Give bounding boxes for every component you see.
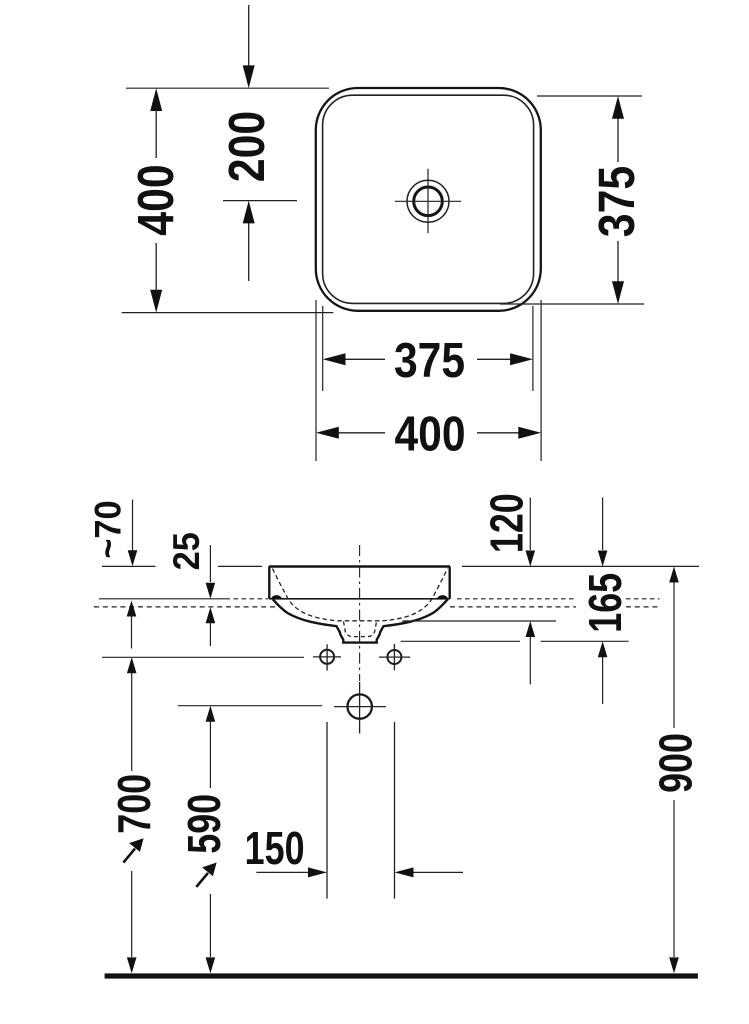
dim ~70: upper arrow (132, 500, 134, 553)
vertical centre line (dash-dot) (359, 545, 361, 681)
basin inner rim (top view) (323, 95, 534, 303)
fixing hole right (387, 650, 401, 664)
drain crosshair (395, 169, 461, 234)
svg-text:375: 375 (394, 332, 465, 387)
svg-text:700: 700 (109, 774, 160, 834)
basin inner bowl (hidden, dashed) (273, 569, 448, 621)
dim 700: lower arrow (131, 871, 133, 957)
basin seam line (269, 598, 450, 600)
dim ~70: lower arrow (131, 615, 133, 649)
reference line at rim level (ticks and right extension) (102, 565, 699, 567)
console line A solid part (99, 598, 226, 600)
dim 900: lower arrow (673, 800, 675, 957)
dim 590: upper arrow (209, 721, 211, 788)
svg-text:~70: ~70 (87, 500, 128, 558)
console line A dashed parts (226, 598, 660, 600)
bottom dims: extension verticals (316, 300, 541, 461)
dim 400 left: extension line top (126, 87, 329, 89)
basin rim top line (269, 565, 450, 567)
svg-text:150: 150 (245, 823, 305, 874)
dim 200: tick line at centre (223, 200, 297, 202)
dim 375 right: dimension line and arrowheads (617, 106, 619, 296)
svg-text:200: 200 (217, 111, 274, 182)
dim 120: lower arrow (529, 637, 531, 685)
svg-text:120: 120 (481, 493, 532, 553)
floor line (105, 973, 698, 978)
dim 120: upper arrow (529, 498, 531, 551)
dim 375 right: extension line bottom (500, 303, 644, 305)
590 reference line / drain crosshairs (178, 705, 322, 707)
dim 200: upper arrow (248, 5, 250, 68)
dim 400 left: extension line bottom (122, 312, 334, 314)
dim 700: upper arrow (131, 673, 133, 771)
dim 590: slant continuation arrow (196, 873, 208, 887)
basin underbody (273, 599, 448, 642)
pedestal verticals (150 apart) (327, 722, 395, 899)
dim 400 left: dimension line and arrowheads (155, 98, 157, 303)
dim 165: upper arrow (602, 498, 604, 551)
drain recess (hidden, dashed) (344, 622, 377, 637)
drain hole circle (348, 694, 372, 718)
dim 590: lower arrow (209, 894, 211, 957)
svg-text:25: 25 (166, 532, 207, 570)
svg-text:375: 375 (587, 166, 644, 237)
svg-text:400: 400 (127, 164, 184, 235)
basin right foot (437, 595, 448, 599)
drain outer circle (407, 180, 449, 222)
dim 25: upper arrow (209, 545, 211, 582)
basin left foot (271, 595, 282, 599)
dim 375 bottom: dimension line and arrowheads (340, 358, 515, 360)
dim 25: lower arrow (209, 622, 211, 646)
dim 900: upper arrow (673, 582, 675, 728)
drain inner circle (414, 187, 443, 216)
svg-text:900: 900 (650, 733, 701, 793)
dim 375 right: extension line top (537, 95, 642, 97)
120 reference line (402, 620, 556, 622)
165 reference line (401, 640, 629, 642)
svg-text:590: 590 (179, 794, 230, 854)
svg-text:400: 400 (394, 406, 465, 461)
reference line B (dashed) (94, 606, 660, 608)
svg-text:165: 165 (580, 573, 631, 633)
dim 400 bottom: dimension line and arrowheads (334, 432, 523, 434)
basin side walls (269, 567, 449, 599)
dim 200: lower arrow (248, 221, 250, 281)
dim 700: slant continuation arrow (123, 849, 135, 863)
dim 165: lower arrow (602, 657, 604, 704)
dim 150: dimension lines and arrowheads (256, 871, 463, 873)
fixing hole left (320, 650, 334, 664)
basin outer rim (top view) (316, 88, 541, 311)
700 reference line / hole crosshairs (102, 656, 304, 658)
